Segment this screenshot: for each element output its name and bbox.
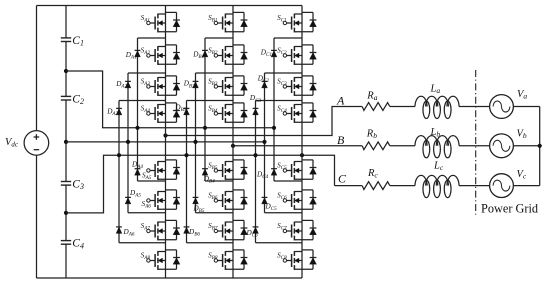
wire n1 bus [66, 71, 274, 128]
wire clamp column 1 leg C [274, 38, 302, 181]
wire La to grid source [459, 106, 490, 108]
clamp diode D_A4 [131, 161, 143, 176]
wire Ra to La [390, 106, 415, 108]
svg-text:A: A [336, 93, 345, 107]
capacitor C4 [61, 238, 84, 251]
wire phase A tap [166, 107, 363, 136]
capacitor C1 [61, 35, 84, 48]
clamp diode D_B3 [174, 104, 189, 115]
wire leg B vertical [232, 6, 234, 279]
svg-text:Rb: Rb [366, 129, 377, 141]
clamp diode D_C6 [246, 227, 259, 239]
clamp diode D_C3 [249, 94, 262, 115]
switch S_B2 with antiparallel diode [208, 45, 247, 65]
node n2 junction [64, 140, 68, 144]
switch S_A4 with antiparallel diode [141, 103, 180, 123]
node n3 to column 3 leg A [117, 153, 121, 157]
switch S_A1 with antiparallel diode [141, 12, 180, 32]
svg-text:La: La [430, 84, 441, 96]
node grid bus junction [538, 144, 542, 148]
switch S_C4 with antiparallel diode [277, 103, 316, 123]
wire phase C lead [335, 185, 363, 187]
svg-text:Power Grid: Power Grid [481, 201, 538, 215]
switch S_B4 with antiparallel diode [208, 103, 247, 123]
clamp diode D_C4 [256, 169, 277, 180]
wire Rb to Lb [390, 145, 415, 147]
switch S_B1 with antiparallel diode [208, 12, 247, 32]
wire clamp column 2 leg C [265, 73, 303, 213]
clamp diode D_B5 [193, 197, 205, 214]
node n2 to column 2 leg C [262, 140, 266, 144]
resistor Ra [362, 90, 390, 110]
dc source V_dc [5, 131, 49, 156]
inductor Lc [415, 161, 459, 198]
wire top DC rail [37, 5, 303, 7]
svg-text:B: B [337, 133, 345, 147]
wire grid neutral bus [539, 107, 541, 186]
wire source Vc to grid bus [513, 185, 539, 187]
node n1 junction [64, 69, 68, 73]
resistor Rb [362, 129, 390, 150]
wire Lb to grid source [459, 145, 490, 147]
capacitor C3 [61, 179, 84, 192]
switch S_A3 with antiparallel diode [141, 76, 180, 96]
switch S_B7 with antiparallel diode [208, 220, 247, 240]
node n3 to column 3 leg C [253, 153, 257, 157]
capacitor C2 [61, 94, 84, 107]
resistor Rc [362, 168, 390, 190]
wire n3 bus and phase C tap [66, 155, 335, 213]
node n3 junction [64, 211, 68, 215]
svg-text:C: C [338, 171, 347, 185]
switch S_C2 with antiparallel diode [277, 45, 316, 65]
svg-text:Lc: Lc [433, 161, 444, 173]
switch S_C7 with antiparallel diode [277, 220, 316, 240]
wire bottom DC rail [37, 277, 303, 279]
clamp diode D_A6 [116, 227, 135, 238]
ac source Vb [490, 129, 527, 158]
wire clamp column 2 leg A [128, 73, 166, 213]
switch S_B6 with antiparallel diode [208, 190, 247, 210]
svg-text:Ra: Ra [366, 90, 377, 102]
clamp diode D_C5 [262, 197, 278, 212]
node n3 to column 3 leg B [184, 153, 188, 157]
node n1 to column 1 leg C [272, 126, 276, 130]
switch S_A7 with antiparallel diode [141, 220, 180, 240]
clamp diode D_C1 [260, 49, 277, 59]
wire clamp column 3 leg B [187, 101, 234, 243]
grid boundary dash-dot line [475, 70, 477, 215]
switch S_A2 with antiparallel diode [141, 45, 180, 65]
clamp diode D_C2 [257, 75, 270, 88]
wire capacitor bus segments [65, 6, 67, 279]
switch S_B3 with antiparallel diode [208, 76, 247, 96]
inductor Lb [415, 127, 459, 158]
svg-text:Vc: Vc [517, 169, 527, 181]
wire leg A vertical [165, 6, 167, 279]
switch S_C1 with antiparallel diode [277, 12, 316, 32]
wire clamp column 3 leg A [119, 101, 166, 243]
wire n2 bus [66, 141, 265, 143]
switch S_C8 with antiparallel diode [277, 250, 316, 270]
wire left rail upper [36, 6, 38, 131]
ac source Vc [490, 169, 527, 198]
inductor La [415, 84, 459, 119]
node n2 to column 2 leg B [193, 140, 197, 144]
switch S_C5 with antiparallel diode [277, 160, 316, 180]
clamp diode D_B1 [192, 50, 208, 60]
switch S_C6 with antiparallel diode [277, 190, 316, 210]
svg-text:Rc: Rc [367, 168, 378, 180]
svg-text:Va: Va [517, 89, 527, 101]
switch S_B8 with antiparallel diode [208, 250, 247, 270]
wire phase B tap [233, 145, 362, 147]
wire Rc to Lc [390, 185, 415, 187]
wire clamp column 2 leg B [196, 73, 234, 213]
node phase C tap dot [300, 153, 304, 157]
clamp diode D_B6 [184, 227, 201, 238]
switch S_B5 with antiparallel diode [208, 160, 247, 180]
switch S_A6 with antiparallel diode [142, 190, 180, 210]
node n1 to column 1 leg B [203, 126, 207, 130]
wire source Va to grid bus [513, 106, 539, 108]
switch S_A8 with antiparallel diode [141, 250, 180, 270]
svg-text:Lb: Lb [430, 127, 441, 139]
node phase A tap dot [163, 133, 167, 137]
clamp diode D_A5 [125, 189, 141, 204]
switch S_A5 with antiparallel diode [142, 160, 180, 181]
switch S_C3 with antiparallel diode [277, 76, 316, 96]
node phase B tap dot [231, 144, 235, 148]
wire left rail lower [36, 155, 38, 278]
wire clamp column 3 leg C [256, 101, 303, 243]
wire clamp column 1 leg B [205, 38, 233, 181]
clamp diode D_A3 [106, 108, 122, 118]
clamp diode D_A2 [115, 80, 131, 90]
node n1 to column 1 leg A [135, 126, 139, 130]
ac source Va [490, 89, 528, 118]
wire clamp column 1 leg A [138, 38, 166, 181]
wire source Vb to grid bus [513, 145, 539, 147]
clamp diode D_A1 [125, 50, 141, 60]
wire leg C vertical [301, 6, 303, 279]
clamp diode D_B2 [183, 80, 199, 90]
clamp diode D_B4 [202, 169, 215, 185]
node n2 to column 2 leg A [126, 140, 130, 144]
wire Lc to grid source [459, 185, 490, 187]
svg-text:Vb: Vb [517, 129, 527, 141]
